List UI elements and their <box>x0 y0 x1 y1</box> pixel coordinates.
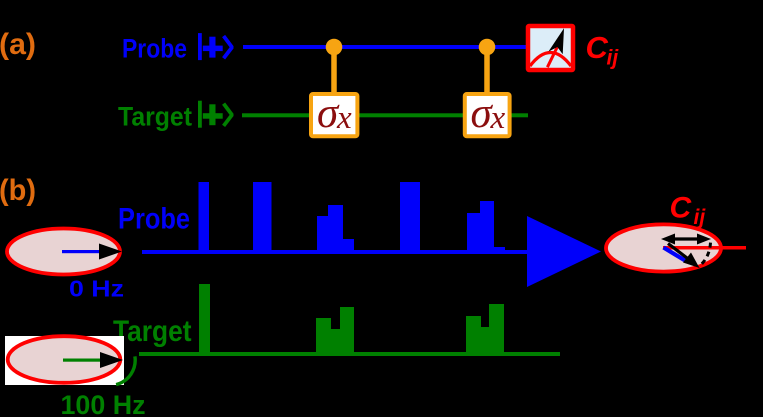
svg-text:Probe: Probe <box>122 34 187 64</box>
svg-text:C: C <box>586 30 609 65</box>
svg-text:100 Hz: 100 Hz <box>61 390 146 417</box>
svg-text:(a): (a) <box>0 28 36 61</box>
probe pulse 2 <box>253 182 272 254</box>
result spin ellipse <box>606 224 721 271</box>
svg-text:x: x <box>490 100 506 136</box>
red output line <box>663 246 746 250</box>
probe ket |+> <box>198 33 232 60</box>
probe pulse 1 <box>199 182 210 254</box>
correlation label Cij (a) <box>586 30 620 70</box>
svg-text:ij: ij <box>607 47 620 70</box>
target pulse 1 <box>199 284 210 356</box>
target time axis <box>139 352 560 356</box>
gate sigma-x 2 box <box>465 90 510 137</box>
svg-text:(b): (b) <box>0 174 36 207</box>
probe pulse 4 <box>400 182 420 254</box>
target ket |+> <box>198 101 232 128</box>
white backing rect <box>5 336 124 385</box>
control stem 1 <box>331 47 337 93</box>
svg-text:Target: Target <box>113 315 192 348</box>
probe time axis <box>142 250 527 254</box>
target spin arrow head <box>100 352 123 368</box>
control stem 2 <box>484 47 490 93</box>
target spin arrow shaft <box>63 359 104 362</box>
correlation label Cij (b) <box>670 192 707 230</box>
probe spin ellipse (0 Hz) <box>7 229 120 275</box>
gate sigma-x 1 box <box>311 90 357 137</box>
black tilted spin arrow <box>668 244 700 269</box>
dashed precession arc <box>699 243 711 267</box>
probe pulse group 3 <box>317 205 354 254</box>
blue spin line <box>664 248 686 261</box>
svg-text:ij: ij <box>694 206 707 229</box>
target wire (green) <box>242 113 528 117</box>
target spin ellipse (100 Hz) <box>8 336 121 383</box>
target pulse group 3 <box>466 304 504 356</box>
target pulse group 2 <box>316 307 354 356</box>
probe spin arrow shaft <box>62 250 103 253</box>
probe wire (blue) <box>243 45 526 49</box>
svg-text:Probe: Probe <box>118 203 190 236</box>
double-headed arrow <box>661 234 711 245</box>
probe spin arrow head <box>99 244 122 260</box>
control dot 1 <box>326 39 343 56</box>
big arrow triangle <box>527 216 601 287</box>
probe pulse group 5 <box>467 201 505 254</box>
rotation arc <box>116 356 135 384</box>
meter M (measurement box) <box>528 26 573 70</box>
svg-text:C: C <box>670 192 693 225</box>
svg-text:x: x <box>336 100 352 136</box>
control dot 2 <box>479 39 496 56</box>
svg-text:Target: Target <box>118 102 192 132</box>
svg-text:0 Hz: 0 Hz <box>69 276 124 302</box>
